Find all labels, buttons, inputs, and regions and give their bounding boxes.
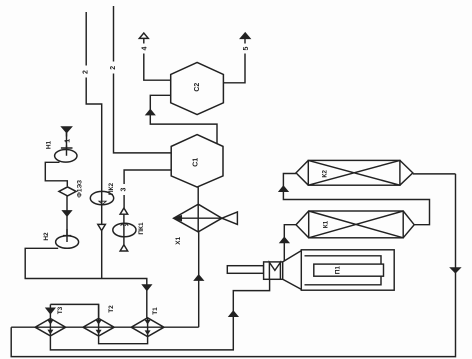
wire K2 outlet — [413, 173, 456, 175]
svg-text:Н1: Н1 — [46, 140, 53, 149]
wire H1 to filter — [45, 162, 67, 186]
heat exchanger T3 — [35, 304, 66, 336]
stream 5 outlet arrow — [223, 33, 250, 83]
svg-text:ПК2: ПК2 — [108, 182, 115, 195]
svg-text:Т1: Т1 — [152, 307, 159, 315]
reactor K2 — [296, 160, 413, 185]
stream 4 outlet arrow — [139, 33, 170, 80]
svg-text:Т3: Т3 — [57, 306, 64, 314]
svg-text:К2: К2 — [322, 170, 329, 178]
wire T2 top to T3 top — [50, 304, 98, 318]
svg-text:2: 2 — [110, 66, 117, 70]
furnace burner arm — [227, 266, 263, 274]
wire feed line 2b — [114, 6, 172, 153]
wire furnace to K1 — [280, 225, 296, 261]
stream 1 inlet arrow — [62, 127, 72, 148]
wire T3 to furnace feed — [50, 279, 269, 350]
wire feed line 2a — [86, 12, 102, 279]
svg-text:ПК1: ПК1 — [138, 222, 145, 235]
heat exchanger T2 — [83, 304, 115, 336]
separator C2 (hexagon) — [171, 62, 224, 114]
furnace transition cone — [283, 251, 302, 290]
node label 2 (line 2a) — [82, 66, 90, 78]
wire T1 to X1 riser — [195, 232, 203, 327]
filter F1E3 (diamond) — [59, 180, 84, 198]
svg-text:1: 1 — [65, 139, 72, 143]
furnace motor box M — [264, 262, 283, 279]
svg-text:5: 5 — [243, 46, 250, 50]
svg-text:Т2: Т2 — [108, 305, 115, 313]
wire T1 bottom to T2 bottom — [99, 336, 148, 344]
separator C1 (hexagon) — [171, 135, 223, 188]
air cooler X1 — [174, 204, 238, 245]
svg-text:Ф1ЭЗ: Ф1ЭЗ — [77, 180, 84, 198]
wire K1 to K2 — [279, 174, 429, 225]
svg-text:2: 2 — [82, 70, 89, 74]
wire T3 left to bottom main — [11, 174, 460, 357]
node label 3 — [120, 184, 128, 195]
wire H2 to T1 — [25, 248, 151, 317]
pump H2 — [43, 229, 79, 248]
relief valve PK2 — [90, 182, 115, 230]
wire tube side through T3 T2 T1 — [11, 326, 199, 328]
heat exchanger T1 — [131, 307, 164, 337]
reactor K1 — [296, 211, 414, 238]
svg-text:Н2: Н2 — [43, 232, 50, 241]
wire C1 to C2 riser — [146, 95, 217, 143]
svg-text:3: 3 — [121, 187, 128, 191]
svg-text:П1: П1 — [335, 266, 342, 275]
relief valve PK1 — [113, 208, 145, 251]
wire PK1 branch to C1 — [124, 170, 171, 208]
wire filter to H2 — [63, 196, 71, 235]
pump H1 — [46, 132, 78, 162]
wire X1 to C1 bottom — [197, 187, 199, 204]
svg-text:Х1: Х1 — [175, 236, 182, 244]
svg-text:С2: С2 — [194, 83, 201, 92]
node label 2 (line 2b) — [110, 62, 118, 74]
svg-text:К1: К1 — [323, 220, 330, 228]
furnace P1 body — [301, 250, 394, 290]
svg-text:4: 4 — [142, 46, 149, 50]
svg-text:С1: С1 — [193, 158, 200, 167]
